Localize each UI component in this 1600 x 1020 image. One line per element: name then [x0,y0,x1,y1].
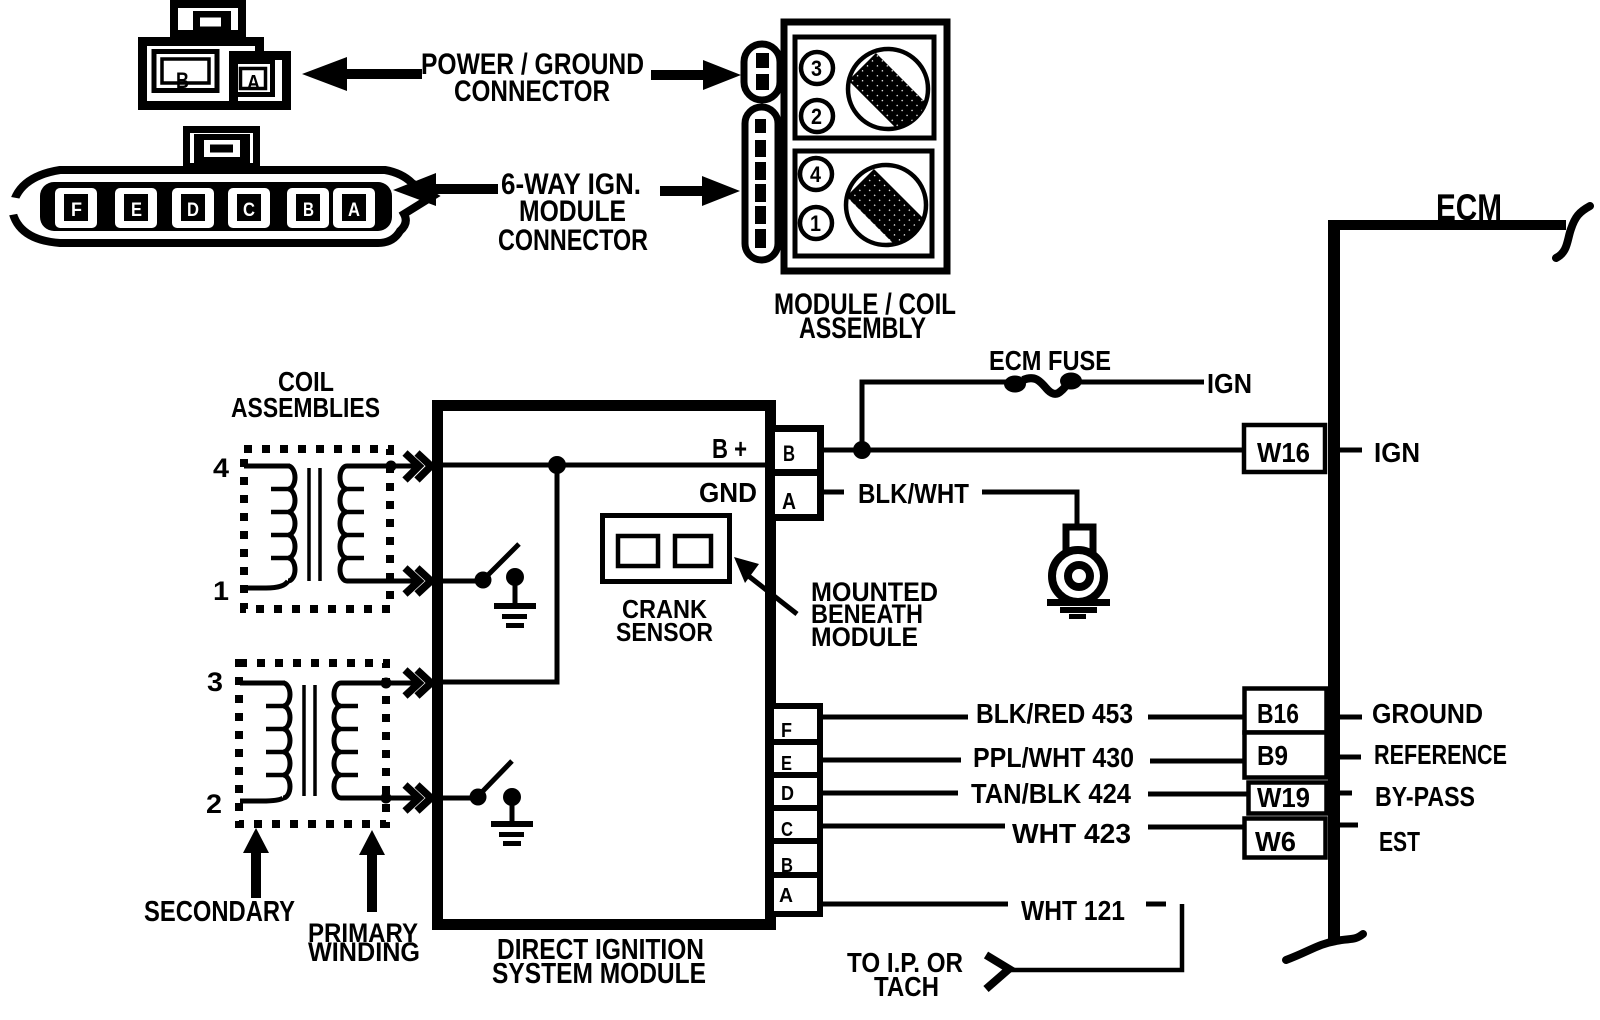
connector P1 power/ground connector (top-left) [143,4,287,106]
svg-text:BLK/RED 453: BLK/RED 453 [976,698,1133,729]
chevron connector pin 1 [405,568,431,594]
wire stub GROUND [1340,715,1362,720]
cell B [287,188,329,228]
connector P2 cell band [40,182,392,231]
svg-text:4: 4 [810,162,822,187]
wire pin C to WHT 423 [823,824,1005,829]
wire TAN/BLK 424 to W19 [1148,792,1248,797]
svg-text:CONNECTOR: CONNECTOR [454,75,610,108]
ground lug G3 (ring terminal) [1066,527,1093,555]
svg-text:4: 4 [213,453,229,483]
wire WHT 121 to tach (corner) [1010,904,1182,970]
wire pin A stub [824,490,844,495]
svg-text:B9: B9 [1257,740,1288,771]
wire stub BY-PASS [1340,791,1352,796]
svg-text:B16: B16 [1257,698,1299,729]
svg-text:WHT 423: WHT 423 [1012,818,1131,849]
T2 primary winding (right) [334,683,341,798]
svg-text:A: A [779,885,793,907]
svg-text:E: E [131,200,142,221]
arrow MOUNTED BENEATH MODULE (points up-left at crank sensor) [734,557,759,583]
wire WHT 121 dash [1146,902,1166,907]
coil tower lower (hatched) [846,165,926,245]
wire pin D to TAN/BLK 424 [823,791,958,796]
svg-text:EST: EST [1379,826,1420,857]
wire T2 primary top to chevron 3 [341,681,414,686]
wire junction down to chevron 3 row [437,465,557,682]
wire pin F to BLK/RED 453 [823,715,968,720]
svg-text:B: B [176,68,189,93]
svg-text:SYSTEM MODULE: SYSTEM MODULE [492,958,706,990]
cell E [115,188,157,228]
svg-text:A: A [782,488,796,514]
T2 secondary winding (left) [283,683,290,798]
svg-text:F: F [71,200,82,221]
cell D [172,188,214,228]
svg-text:W16: W16 [1257,437,1310,468]
svg-text:SENSOR: SENSOR [616,617,713,647]
terminal 2 [801,100,833,132]
T1 terminal 4 wire [244,464,290,469]
wire pin A to WHT 121 [823,902,1008,907]
ECM bus top horizontal line [1329,220,1566,230]
connector ref W16 [1244,425,1325,472]
T1 core [309,468,320,581]
svg-text:CONNECTOR: CONNECTOR [498,224,648,257]
svg-text:D: D [187,200,199,221]
svg-text:A: A [247,72,260,94]
pin box B (top) [772,429,821,518]
svg-text:2: 2 [811,104,822,129]
direct ignition system module U1 outline [438,406,771,925]
connector ref W6 [1245,819,1326,858]
coil pack upper housing [795,37,934,138]
svg-text:C: C [243,200,255,221]
wire BLK/WHT to ground lug [982,492,1077,527]
crank sensor box [603,516,730,582]
arrow to module/coil 6-way port (points right) [660,176,740,206]
svg-text:ASSEMBLIES: ASSEMBLIES [231,392,380,423]
wire T2 primary bottom to chevron 2 [341,796,414,801]
svg-text:ASSEMBLY: ASSEMBLY [799,312,926,345]
switch S1 pole [475,572,492,589]
chevron connector pin 3 [405,670,431,696]
svg-text:MODULE: MODULE [811,622,918,652]
junction node on IGN wire [853,441,871,459]
ground G1 [494,603,536,628]
ground G2 stem [510,800,515,822]
switch S1 blade [488,544,519,575]
wire pin E to PPL/WHT 430 [823,758,961,763]
switch S2 throw [503,788,521,806]
svg-text:C: C [781,819,793,841]
switch S1 throw [506,568,524,586]
svg-text:BLK/WHT: BLK/WHT [858,478,969,509]
terminal 1 [800,207,832,239]
arrow PRIMARY WINDING (points up) [359,830,385,912]
svg-text:3: 3 [811,56,822,81]
switch S2 input wire [437,796,478,801]
terminal 4 [800,158,832,190]
wire T1 primary bottom to chevron 1 [347,579,414,584]
chevron connector pin 4 [405,453,431,480]
svg-text:W6: W6 [1255,826,1296,857]
wire W16 to ECM [1340,448,1362,453]
arrow to P2 (points left) [393,173,498,206]
svg-text:E: E [781,753,792,775]
connector P2 body outline [12,170,433,243]
wire B+ rail (chevron 4 to pin B) [433,463,770,468]
cell A [333,188,375,228]
connector ref B9 [1245,733,1327,778]
svg-text:F: F [781,720,792,742]
wire BLK/RED 453 to B16 [1148,715,1244,720]
svg-text:REFERENCE: REFERENCE [1374,739,1507,770]
module/coil assembly outer case [784,22,947,271]
T2 terminal 2 wire [240,798,283,801]
switch S2 blade [482,761,512,792]
svg-text:W19: W19 [1257,782,1310,813]
wire stub REFERENCE [1340,755,1361,760]
cell C [228,188,270,228]
coil assembly T2 (cyl 3/2) dotted enclosure [239,663,386,824]
wire pin B to W16 [824,448,1242,453]
svg-text:TACH: TACH [874,971,939,1002]
wire junction up to ECM fuse line [862,382,1006,450]
arrow to I.P./tach (open chevron) [986,955,1009,989]
T1 primary winding (right) [340,466,347,581]
wire fuse to IGN [1080,380,1204,385]
svg-text:B: B [781,855,793,877]
pin column F-A boxes [771,706,820,914]
junction node on B+ rail [548,456,566,474]
ECM top break mark [1556,206,1590,258]
svg-text:B: B [783,441,795,466]
chevron connector pin 2 [405,785,431,811]
T1 secondary winding (left) [288,466,295,581]
svg-text:WINDING: WINDING [308,937,420,967]
svg-text:3: 3 [207,667,223,697]
ECM bottom break mark [1286,934,1363,960]
wire stub EST [1340,823,1358,828]
svg-text:B: B [303,200,314,221]
switch S1 input wire [437,579,483,584]
svg-text:ECM: ECM [1436,187,1502,228]
svg-text:GROUND: GROUND [1372,698,1483,729]
wire WHT 423 to W6 [1148,825,1244,830]
svg-text:IGN: IGN [1207,368,1252,399]
svg-text:2: 2 [206,789,222,819]
svg-text:B +: B + [712,433,747,464]
svg-text:1: 1 [810,211,821,236]
svg-text:WHT 121: WHT 121 [1021,895,1125,926]
connector P2 6-way ign. module connector (left) [0,130,433,244]
power/ground port oval on module [744,44,780,100]
T2 core [304,685,315,796]
svg-text:PPL/WHT 430: PPL/WHT 430 [973,742,1134,773]
svg-text:D: D [781,783,794,805]
cell F [55,188,97,228]
svg-text:GND: GND [699,477,757,508]
arrow to P1 (points left) [302,57,422,91]
switch S2 pole [470,789,487,806]
wire T1 primary top to chevron 4 [347,464,414,469]
svg-text:1: 1 [213,576,229,606]
fuse F1 [1004,376,1026,393]
svg-text:SECONDARY: SECONDARY [144,896,295,928]
svg-text:BY-PASS: BY-PASS [1375,781,1475,812]
T1 terminal 1 wire [244,581,288,588]
svg-text:ECM FUSE: ECM FUSE [989,345,1111,376]
coil pack lower housing [795,151,932,256]
svg-text:TAN/BLK 424: TAN/BLK 424 [971,778,1131,809]
6-way port oval on module [745,107,778,260]
terminal 3 [801,52,833,84]
connector P2 keying notch [0,195,33,217]
svg-text:IGN: IGN [1374,437,1420,468]
ground G1 stem [513,580,518,604]
T2 terminal 3 wire [240,681,285,686]
svg-text:A: A [348,200,360,221]
ECM bus vertical line [1328,220,1340,941]
arrow SECONDARY (points up) [243,828,269,898]
arrow to module/coil power-ground port (points right) [651,60,741,90]
connector ref B16 [1245,689,1327,733]
ground G2 [491,821,533,846]
coil assembly T1 (cyl 4/1) dotted enclosure [244,449,390,609]
wire PPL/WHT 430 to B9 [1150,759,1244,764]
connector ref W19 [1249,783,1327,814]
coil tower upper (hatched) [848,49,928,129]
